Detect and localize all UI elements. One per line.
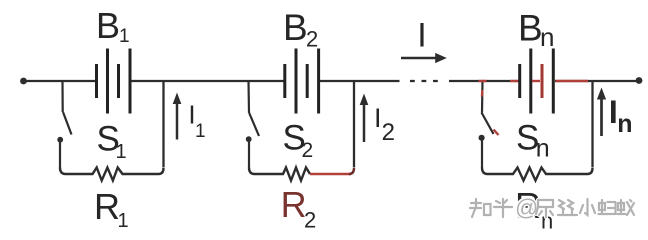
wire: right riser of loop n <box>591 81 593 168</box>
svg-text:2: 2 <box>304 208 316 233</box>
wire: main bus left segment from left terminal to B1 <box>23 80 96 82</box>
wire: red segment right of Bn <box>556 80 589 82</box>
wire: dashed continuation segment (ellipsis) <box>410 80 415 82</box>
label R2 (red tinted) <box>281 184 317 233</box>
svg-text:I: I <box>374 103 382 133</box>
red annotation marks around Bn and Sn <box>479 81 589 135</box>
wire: red segment left of Bn <box>510 80 518 82</box>
label I1 <box>188 100 205 142</box>
svg-text:I: I <box>417 17 426 55</box>
label S2 <box>283 119 314 163</box>
label Rn <box>515 185 553 234</box>
wire: red tip at end of Sn blade <box>494 130 499 136</box>
node: left terminal dot <box>20 78 27 85</box>
svg-text:2: 2 <box>382 119 395 146</box>
wire: red tick on bus at loop-n junction <box>479 80 487 82</box>
svg-text:1: 1 <box>116 141 127 163</box>
wire: bus segment B2 to dashed break <box>320 80 400 82</box>
svg-text:2: 2 <box>306 26 318 51</box>
svg-text:B: B <box>283 7 308 48</box>
label I2 <box>374 103 395 146</box>
arrow I (main current, pointing right) <box>401 53 447 63</box>
arrow In (branch current, pointing up) <box>597 88 606 137</box>
battery Bn (plates short-tall-short[red]-tall) <box>520 49 554 114</box>
wire: red segment inside Bn gap <box>532 80 540 82</box>
label Sn <box>516 119 550 163</box>
label B2 <box>283 7 318 51</box>
watermark: 知乎 @屌丝小蚂蚁 (light gray, hand-drawn strokes) <box>470 195 634 221</box>
label In (bold) <box>609 94 633 138</box>
wire: bus segment Bn to right terminal <box>555 80 639 82</box>
svg-text:n: n <box>540 22 554 52</box>
svg-text:n: n <box>617 110 632 138</box>
wire: bottom rail of loop 1 with resistor R1 zigzag <box>60 168 164 181</box>
wire: red tick at top of switch Sn leg <box>481 90 484 97</box>
label R1 <box>94 186 129 232</box>
svg-text:R: R <box>94 186 120 227</box>
wire: bus segment dashed break to Bn <box>449 80 519 82</box>
battery B1 (plates short-tall-short-tall) <box>97 49 131 114</box>
switch S1 (open knife switch in left leg of loop 1) <box>57 81 71 168</box>
arrow I2 (branch current, pointing up) <box>360 94 369 143</box>
wire: right riser of loop 2 <box>353 81 355 168</box>
label Bn <box>518 8 554 53</box>
svg-text:@: @ <box>515 195 538 221</box>
wire: bottom rail of loop 2 with resistor R2 zigzag <box>249 168 310 181</box>
wire: dark corner joining red rail to riser of loop 2 <box>349 168 354 174</box>
wire: bottom rail of loop n with resistor Rn zigzag <box>482 168 593 181</box>
arrow I1 (branch current, pointing up) <box>173 93 182 140</box>
wire: right riser of loop 1 (junction to bottom rail) <box>162 81 164 168</box>
svg-text:2: 2 <box>302 139 314 162</box>
label S1 <box>97 120 127 164</box>
svg-text:B: B <box>96 5 120 46</box>
svg-text:B: B <box>518 8 543 49</box>
label B1 <box>96 5 130 47</box>
svg-text:1: 1 <box>195 121 206 142</box>
svg-text:n: n <box>536 135 550 163</box>
battery B2 (plates short-tall-short-tall) <box>285 49 319 114</box>
node: right terminal dot <box>636 77 643 84</box>
svg-text:1: 1 <box>118 210 129 232</box>
svg-text:R: R <box>281 184 307 225</box>
svg-text:1: 1 <box>119 26 130 47</box>
switch Sn (open knife switch in left leg of loop n, red-marked) <box>479 81 494 168</box>
wire: red highlighted rail segment right of R2 <box>310 173 351 175</box>
switch S2 (open knife switch in left leg of loop 2) <box>246 81 259 168</box>
wire: bus segment B1 to B2 <box>132 80 284 82</box>
